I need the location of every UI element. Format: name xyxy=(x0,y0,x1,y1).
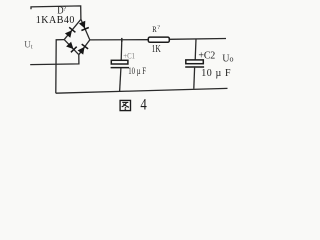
diode D4 on lower-right edge (points B to R) xyxy=(78,44,89,55)
diode D1 on upper-left edge (points L to T) xyxy=(65,27,76,38)
wire: bridge left corner (DC-) down to bottom rail xyxy=(56,40,64,94)
capacitor C2 line plate xyxy=(185,66,204,68)
wire: C2 lower stem xyxy=(193,68,196,89)
wire: bottom rail xyxy=(56,88,228,93)
bridge rectifier D : diamond edges xyxy=(64,19,90,54)
wire: C1 upper stem xyxy=(120,40,123,60)
svg-text:Uo: Uo xyxy=(222,53,233,64)
paper background xyxy=(0,0,268,121)
wire: edge top-right xyxy=(81,19,90,40)
svg-text:1KAB40: 1KAB40 xyxy=(36,15,75,26)
svg-text:+C2: +C2 xyxy=(198,50,215,61)
caption: hanzi TU (figure) drawn as paths xyxy=(120,100,130,110)
wire: bottom AC input from Ut to bridge bottom corner xyxy=(30,55,79,65)
wire: C2 upper stem xyxy=(194,39,197,60)
svg-text:1K: 1K xyxy=(152,43,162,54)
svg-text:10 µ F: 10 µ F xyxy=(201,68,231,79)
wire: C1 lower stem xyxy=(120,68,121,92)
svg-text:10 µ F: 10 µ F xyxy=(128,66,146,76)
wire: edge bottom-left xyxy=(64,40,79,55)
wire: top rail from bridge right corner to resistor xyxy=(90,39,149,41)
resistor R body xyxy=(148,37,169,42)
capacitor C1 box plate xyxy=(111,60,128,64)
wire: edge bottom-right xyxy=(79,40,90,55)
wire: top AC input from Ut to bridge top corner xyxy=(31,6,81,19)
svg-text:?: ? xyxy=(63,5,66,12)
wire: edge top-left xyxy=(64,19,81,39)
diode D3 on lower-left edge (points L to B) xyxy=(66,42,77,53)
svg-text:+C1: +C1 xyxy=(123,51,135,61)
node: C1 junction tick on top rail xyxy=(121,38,123,42)
svg-text:4: 4 xyxy=(140,96,147,114)
capacitor C1 line plate xyxy=(111,67,130,69)
diode D2 on upper-right edge (points T to R) xyxy=(79,21,89,31)
wire: top rail from resistor to output xyxy=(169,38,226,41)
capacitor C2 box plate xyxy=(186,60,204,64)
svg-text:?: ? xyxy=(157,25,160,31)
